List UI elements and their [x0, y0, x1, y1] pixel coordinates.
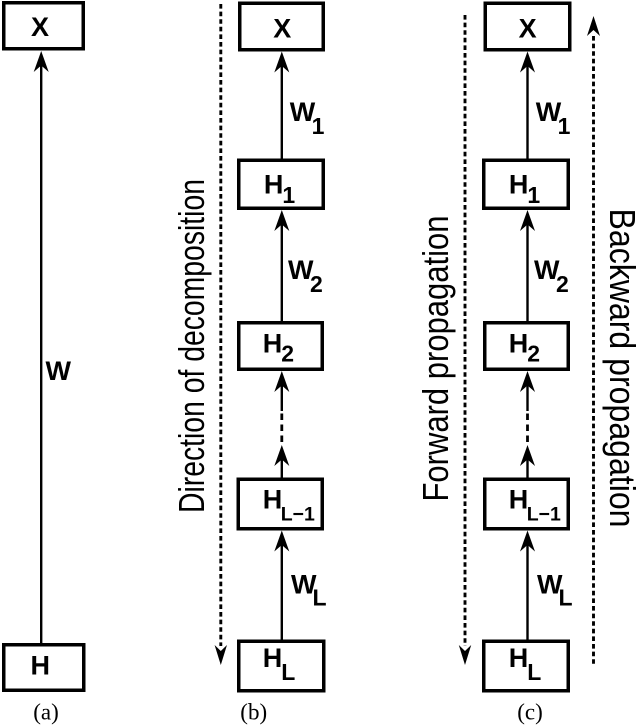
arrow WL (b): HL to HL-1 — [274, 531, 289, 640]
label W2 (b) — [288, 255, 323, 297]
label HL-1 (c) — [509, 484, 561, 525]
svg-text:W: W — [46, 356, 72, 386]
label HL-1 (b) — [263, 484, 315, 525]
broken arrow lower part from HL-1 (c) — [520, 445, 535, 478]
label W (a) — [46, 356, 72, 386]
rotated label: Backward propagation — [602, 209, 640, 528]
node H1 (c) — [484, 160, 569, 208]
rotated label: Forward propagation — [415, 216, 456, 502]
svg-text:X: X — [273, 13, 291, 43]
caption (c) — [517, 700, 543, 725]
arrow W2 (c): H2 to H1 — [520, 210, 535, 321]
label H (a) — [31, 650, 51, 680]
caption (a) — [33, 700, 59, 725]
caption (b) — [240, 700, 267, 725]
arrow W2 (b): H2 to H1 — [274, 210, 289, 321]
label H2 (b) — [263, 329, 294, 367]
node HL (b) — [239, 641, 324, 691]
broken arrow dotted middle (b) — [280, 414, 283, 445]
svg-text:(a): (a) — [33, 700, 59, 725]
svg-text:X: X — [519, 13, 537, 43]
label H2 (c) — [509, 329, 540, 367]
arrow W (a): H to X — [34, 51, 49, 643]
node H1 (b) — [239, 160, 324, 208]
svg-text:X: X — [31, 12, 49, 42]
broken arrow dotted middle (c) — [526, 414, 529, 445]
node HL-1 (c) — [485, 479, 569, 529]
label H1 (b) — [264, 170, 296, 209]
label WL (c) — [537, 570, 573, 611]
svg-text:(c): (c) — [517, 700, 543, 725]
node HL-1 (b) — [238, 479, 322, 529]
label HL (b) — [263, 643, 296, 685]
svg-text:(b): (b) — [240, 700, 267, 725]
label W2 (c) — [534, 255, 569, 297]
broken arrow upper part into H2 (b) — [274, 371, 289, 411]
label WL (b) — [291, 570, 327, 611]
node H2 (c) — [485, 323, 569, 370]
arrow WL (c): HL to HL-1 — [520, 531, 535, 640]
rotated label: Direction of decomposition — [171, 179, 212, 513]
node HL (c) — [484, 641, 569, 691]
node H (a) — [4, 645, 84, 691]
broken arrow lower part from HL-1 (b) — [274, 445, 289, 478]
svg-text:H: H — [31, 650, 51, 680]
label X (a) — [31, 12, 49, 42]
arrow W1 (b): H1 to X — [274, 52, 289, 159]
label X (b) — [273, 13, 291, 43]
label X (c) — [519, 13, 537, 43]
svg-text:Direction of decomposition: Direction of decomposition — [171, 179, 212, 513]
node X (a) — [4, 3, 84, 49]
arrow W1 (c): H1 to X — [520, 52, 535, 159]
label W1 (b) — [290, 97, 325, 139]
svg-text:Backward propagation: Backward propagation — [602, 209, 640, 528]
label W1 (c) — [536, 97, 571, 139]
svg-text:Forward propagation: Forward propagation — [415, 216, 456, 502]
node X (c) — [485, 3, 570, 50]
node H2 (b) — [239, 323, 323, 370]
node X (b) — [240, 3, 324, 50]
label HL (c) — [509, 643, 542, 685]
dashed arrow: direction of decomposition (b) — [215, 4, 227, 665]
label H1 (c) — [509, 170, 541, 209]
dashed arrow: forward propagation (c) — [459, 15, 471, 665]
broken arrow upper part into H2 (c) — [520, 371, 535, 411]
dashed arrow: backward propagation (c) — [587, 16, 600, 666]
